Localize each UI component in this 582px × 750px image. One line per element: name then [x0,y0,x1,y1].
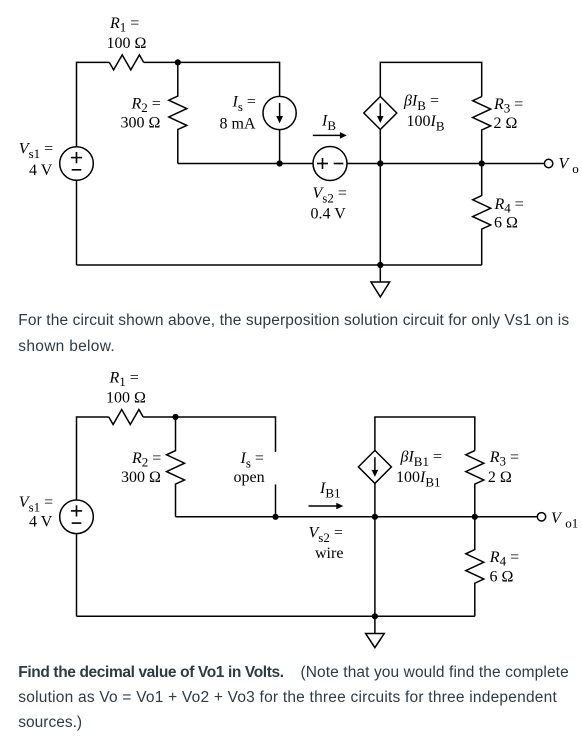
svg-text:6 Ω: 6 Ω [490,569,514,586]
junction: diamond bottom on middle rail (bottom circuit) [372,514,378,520]
junction: Is bottom on middle rail [277,160,283,166]
svg-text:100 Ω: 100 Ω [107,35,147,52]
svg-text:R1 =: R1 = [109,370,139,390]
label Vs2 = 0.4 V [311,185,347,223]
terminal Vo (open circle) [544,159,552,167]
label R1 = 100 ohm (bottom circuit) [106,370,146,407]
svg-text:R4 =: R4 = [489,549,519,569]
label betaIB = 100IB [403,93,445,134]
resistor R2 (vertical zigzag with leads, bottom circuit) [167,417,185,517]
svg-text:Is =: Is = [240,450,264,471]
svg-text:R3 =: R3 = [493,96,523,116]
label R1 = 100 ohm [107,15,147,52]
label R4 = 6 ohm (bottom circuit) [489,549,519,586]
label Vs2 = wire [309,525,344,563]
ground symbol [371,265,390,297]
svg-text:R3 =: R3 = [489,449,519,469]
resistor R4 (vertical zigzag with leads, bottom circuit) [466,517,484,617]
svg-text:R2 =: R2 = [131,96,161,116]
wire: bottom rail (bottom circuit) [77,615,475,617]
svg-text:IB: IB [321,113,336,134]
label R2 = 300 ohm [121,96,161,132]
wire: middle rail (R2 bottom to Vo1 terminal, Vs2 replaced by wire) [176,516,538,518]
dependent source beta-IB1 (diamond with down arrow) [358,450,391,483]
label Is = 8 mA [220,94,256,133]
svg-text:4 V: 4 V [29,514,53,531]
svg-text:Vs1 =: Vs1 = [19,494,53,515]
voltage source Vs1 (circle with plus minus) [60,147,94,181]
svg-text:βIB1 =: βIB1 = [400,449,443,470]
node A junction (bottom circuit) [172,414,178,420]
svg-text:Vo: Vo [559,156,579,177]
dependent source beta-IB (diamond with down arrow) [364,97,397,130]
wire: dependent box top rail (bottom circuit) [375,417,475,451]
svg-text:100IB1: 100IB1 [396,469,441,490]
svg-text:R4 =: R4 = [494,196,524,216]
svg-text:100IB: 100IB [407,113,445,134]
junction: diamond bottom on middle rail [377,160,383,166]
label R3 = 2 ohm [493,96,523,132]
resistor R3 (vertical zigzag with leads) [473,97,491,164]
junction: R3/R4/Vo node on middle rail [479,160,485,166]
node A (junction R1/R2/Is) [175,59,181,65]
resistor R1 (horizontal zigzag, bottom circuit) [109,410,143,425]
label Vs1 = 4 V [19,141,53,180]
wire: diamond bottom through middle rail to bottom rail [379,130,381,266]
wire: left branch top (Vs1 top lead up and over to R1) [77,417,109,500]
svg-text:Vs2 =: Vs2 = [313,185,347,206]
svg-text:R1 =: R1 = [109,15,139,35]
voltage source Vs1 (bottom circuit) [60,500,94,534]
label R3 = 2 ohm (bottom circuit) [488,449,519,486]
resistor R3 (vertical zigzag with leads, bottom circuit) [466,451,484,517]
svg-text:Vs2 =: Vs2 = [309,525,343,546]
label current IB1 with arrow [309,480,344,509]
svg-text:6 Ω: 6 Ω [494,215,518,232]
junction: ground node on bottom rail [377,262,383,268]
resistor R4 (vertical zigzag with leads) [473,164,491,266]
svg-text:8 mA: 8 mA [220,116,256,133]
label R2 = 300 ohm (bottom circuit) [121,450,161,486]
svg-text:2 Ω: 2 Ω [488,469,512,486]
voltage source Vs2 (circle with + - horizontal) [313,147,347,181]
svg-text:Is =: Is = [232,94,256,115]
junction: R3/R4/Vo1 node on middle rail [472,514,478,520]
junction: ground node on bottom rail (bottom circuit) [372,613,378,619]
wire: diamond bottom through middle rail to bottom rail (bottom circuit) [374,483,376,616]
label betaIB1 = 100IB1 [396,449,442,490]
wire: top rail node A to Is top lead [178,62,280,96]
wire: dependent box top rail (diamond top to R3 top) [380,62,481,96]
svg-text:IB1: IB1 [319,480,341,501]
wire: left branch bottom (Vs1 to bottom rail) [76,180,78,265]
svg-text:100 Ω: 100 Ω [106,390,146,407]
wire: left branch top (Vs1 top lead up and over to R1) [77,62,110,146]
svg-text:Vs1 =: Vs1 = [19,141,53,162]
terminal Vo1 (open circle) [537,513,545,521]
svg-text:R2 =: R2 = [131,450,161,470]
svg-text:300 Ω: 300 Ω [121,115,161,132]
wire: open Is branch lower segment [275,484,277,516]
wire: top rail node A to open Is branch upper segment [176,417,276,452]
label Vs1 = 4 V (bottom circuit) [19,494,53,531]
wire: middle rail right (Vs2 to Vo terminal) [347,163,544,165]
wire: left branch bottom (bottom circuit) [76,534,78,617]
svg-text:2 Ω: 2 Ω [494,115,518,132]
wire: Is bottom lead [279,130,281,164]
ground symbol (bottom circuit) [366,616,385,647]
svg-text:open: open [234,469,265,486]
svg-text:0.4 V: 0.4 V [311,206,347,223]
wire: top rail R1 to node A [144,61,178,63]
svg-text:4 V: 4 V [29,162,53,179]
label R4 = 6 ohm [494,196,524,232]
wire: middle rail left (R2 bottom to Vs2) [178,163,313,165]
junction: open Is branch on middle rail [272,514,278,520]
resistor R1 (horizontal zigzag) [109,55,143,70]
wire: bottom rail [77,264,482,266]
wire: top rail R1 to node A (bottom circuit) [143,416,175,418]
label current IB with arrow [313,113,347,139]
resistor R2 (vertical zigzag with leads) [169,62,187,163]
current source Is (circle with down arrow) [263,96,296,129]
svg-text:wire: wire [315,545,343,562]
svg-text:Vo1: Vo1 [551,510,578,531]
svg-text:300 Ω: 300 Ω [121,469,161,486]
label Is = open [234,450,265,486]
svg-text:βIB =: βIB = [403,93,439,114]
